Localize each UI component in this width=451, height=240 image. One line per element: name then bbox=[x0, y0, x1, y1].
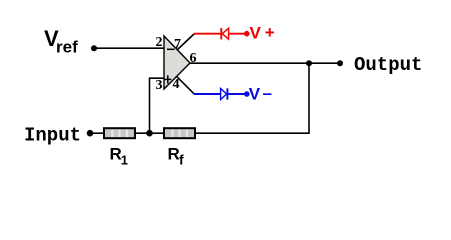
svg-text:–: – bbox=[263, 84, 272, 103]
svg-text:1: 1 bbox=[121, 153, 128, 168]
svg-text:f: f bbox=[179, 152, 184, 168]
svg-text:6: 6 bbox=[190, 51, 197, 66]
svg-text:Output: Output bbox=[354, 54, 422, 76]
svg-text:R: R bbox=[168, 145, 180, 164]
svg-text:7: 7 bbox=[174, 37, 181, 52]
svg-text:+: + bbox=[265, 23, 275, 42]
svg-text:Input: Input bbox=[24, 125, 81, 147]
svg-text:4: 4 bbox=[173, 77, 180, 92]
svg-text:V: V bbox=[249, 85, 261, 104]
svg-text:V: V bbox=[250, 24, 262, 43]
svg-text:ref: ref bbox=[56, 38, 78, 57]
svg-text:3: 3 bbox=[156, 78, 163, 93]
svg-text:2: 2 bbox=[156, 35, 163, 50]
